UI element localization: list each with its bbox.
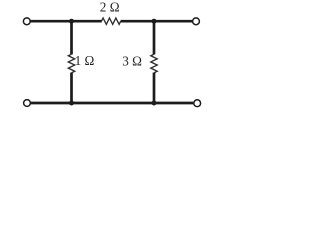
terminal (bottom-left) [24,100,31,107]
wire (right branch, lower) [153,73,156,103]
wire (right branch, upper) [153,21,156,54]
wire (left branch, lower) [70,73,73,103]
wire (left branch, upper) [70,21,73,54]
resistor 2 ohm (horizontal zigzag) [102,18,121,24]
resistor 3 ohm (vertical zigzag) [151,54,157,73]
svg-text:2 Ω: 2 Ω [100,0,120,14]
node junction (top rail / right branch) [152,19,157,24]
wire (top rail, left segment) [30,20,101,23]
wire (bottom rail) [31,102,194,105]
svg-text:3 Ω: 3 Ω [122,53,142,68]
node junction (top rail / left branch) [69,19,74,24]
wire (top rail, right segment) [121,20,193,23]
svg-text:1 Ω: 1 Ω [75,53,95,68]
terminal (top-left) [23,18,30,25]
terminal (bottom-right) [194,100,201,107]
node junction (bottom rail / right branch) [152,101,157,106]
node junction (bottom rail / left branch) [69,101,74,106]
terminal (top-right) [193,18,200,25]
resistor 1 ohm (vertical zigzag) [68,54,74,73]
